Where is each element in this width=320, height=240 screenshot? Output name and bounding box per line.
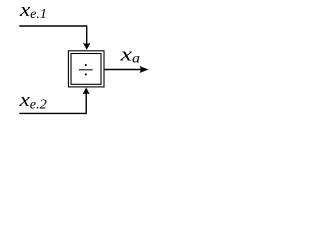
arrowhead output right (140, 66, 149, 73)
wire top input horizontal (19, 25, 86, 27)
division symbol upper dot (85, 64, 87, 66)
division symbol lower dot (85, 73, 87, 75)
arrowhead into box top (83, 43, 91, 50)
divider block U1 inner box (71, 54, 101, 85)
wire top input vertical drop (86, 25, 88, 44)
divider block U1 outer box (68, 51, 104, 87)
svg-text:xe.1: xe.1 (19, 1, 47, 21)
division symbol bar (79, 69, 93, 71)
wire bottom input vertical rise (85, 93, 87, 114)
arrowhead into box bottom (83, 87, 90, 94)
svg-text:xe.2: xe.2 (18, 91, 47, 111)
wire output horizontal (104, 69, 141, 71)
wire bottom input horizontal (19, 112, 86, 114)
svg-text:xa: xa (119, 45, 140, 65)
